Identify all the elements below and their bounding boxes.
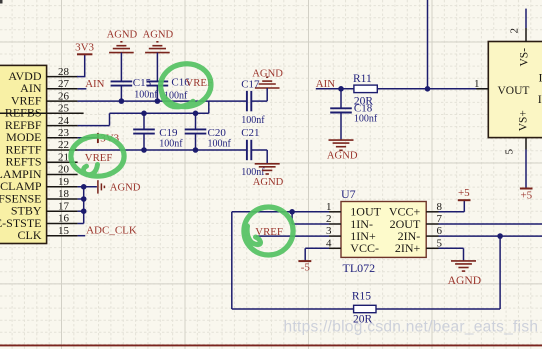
capacitor C20 100nf — [185, 113, 232, 150]
wire pin27 stub — [78, 88, 87, 90]
wire AGND to C16 — [156, 53, 158, 82]
pin 1 1OUT — [326, 201, 382, 219]
wire C16 to VREF rail — [156, 86, 158, 102]
net label VREF (U7 pin 3) — [255, 226, 283, 238]
svg-text:20: 20 — [58, 164, 70, 176]
power 3V3 (top-left bar) — [75, 42, 94, 55]
wire REFTF rail from pin 22 — [78, 149, 247, 151]
wire R11 to VOUT pin1 — [377, 88, 488, 90]
svg-text:21: 21 — [58, 152, 69, 164]
svg-text:4: 4 — [326, 237, 332, 249]
pin 21 REFTS — [5, 152, 77, 169]
svg-text:AGND: AGND — [107, 30, 138, 41]
svg-text:VREF: VREF — [85, 152, 113, 164]
svg-text:8: 8 — [437, 201, 443, 213]
svg-text:100nf: 100nf — [208, 138, 232, 149]
svg-text:1: 1 — [474, 78, 480, 90]
svg-text:AGND: AGND — [327, 150, 358, 161]
svg-text:2: 2 — [509, 28, 521, 34]
svg-text:100nf: 100nf — [241, 115, 265, 126]
pin 16 E-STSTE — [0, 213, 78, 230]
svg-text:7: 7 — [437, 213, 443, 225]
svg-text:2: 2 — [326, 213, 332, 225]
wire R15 to pin6 vertical — [376, 308, 500, 310]
pin 22 REFTF — [5, 139, 77, 156]
wire pin7 2OUT to right edge — [439, 223, 542, 225]
svg-text:+5: +5 — [520, 190, 532, 202]
capacitor C19 100nf — [133, 113, 183, 150]
pin 17 STBY — [11, 200, 78, 217]
ground AGND above C17 — [252, 68, 283, 88]
svg-text:IN-: IN- — [539, 71, 542, 85]
op-amp U7 TL072 — [341, 187, 426, 275]
pin 18 FSENSE — [0, 188, 78, 205]
svg-text:26: 26 — [58, 90, 70, 102]
junction C19 bottom — [141, 147, 147, 153]
wire pin5 to +5 — [525, 150, 527, 189]
pin 25 REFBS — [5, 103, 78, 120]
svg-text:VCC-: VCC- — [350, 241, 379, 255]
svg-text:U7: U7 — [341, 187, 356, 201]
strikethrough line through REFBS pin name (pin 25 wire) — [0, 112, 84, 114]
ground AGND below C21 — [253, 164, 284, 188]
pin 6 2IN- — [398, 225, 443, 243]
pin 19 CLAMP — [0, 176, 77, 193]
corner artifact top-left — [0, 0, 3, 4]
pin 15 CLK — [18, 225, 78, 242]
pin 8 VCC+ — [389, 201, 443, 219]
svg-text:AGND: AGND — [253, 177, 284, 188]
wire pin6 down to R15 — [499, 236, 501, 309]
power +5 (below VS+) — [520, 189, 533, 202]
junction C20 bottom — [193, 147, 199, 153]
wire pin23 MODE to 3V3 — [78, 137, 98, 139]
junction pin18 bus — [81, 196, 87, 202]
capacitor C21 100nf — [241, 127, 265, 178]
wire pin1 1OUT left — [232, 211, 329, 213]
annotation circle (C16/VREF) — [159, 61, 214, 109]
ground AGND (right-pointing, pin 19) — [98, 180, 141, 193]
svg-text:28: 28 — [58, 66, 70, 78]
watermark — [284, 318, 539, 335]
pin 26 VREF — [11, 90, 78, 107]
svg-text:ADC_CLK: ADC_CLK — [86, 225, 137, 237]
resistor R15 20R — [352, 291, 376, 326]
svg-text:17: 17 — [58, 200, 70, 212]
pin 20 LAMPIN — [0, 164, 78, 181]
wire pin5 2IN+ to AGND — [439, 248, 464, 260]
wire bus pins 19-16 — [78, 187, 84, 224]
pin 7 2OUT — [390, 213, 443, 231]
junction C15/VREF rail — [119, 98, 125, 104]
junction C16/VREF rail — [155, 98, 161, 104]
svg-text:R11: R11 — [353, 73, 372, 85]
ground AGND below C18 — [327, 140, 358, 161]
annotation circle (VREF U7) — [244, 207, 293, 255]
svg-text:C19: C19 — [159, 127, 178, 139]
svg-text:CLK: CLK — [18, 228, 42, 242]
junction pin17 bus — [81, 208, 87, 214]
svg-text:27: 27 — [58, 78, 70, 90]
ground AGND above C16 — [143, 30, 174, 53]
svg-text:VOUT: VOUT — [498, 85, 530, 97]
ground AGND below U7 pin5 — [448, 261, 482, 287]
svg-text:18: 18 — [58, 188, 70, 200]
capacitor C17 100nf — [241, 79, 265, 126]
svg-text:C21: C21 — [241, 127, 259, 139]
junction feedback — [289, 209, 295, 215]
resistor R11 20R — [353, 73, 377, 107]
power 3V3 (bar at MODE) — [98, 133, 120, 145]
pin 2 1IN- — [326, 213, 373, 231]
svg-text:VREF: VREF — [255, 226, 283, 238]
svg-text:3V3: 3V3 — [75, 42, 94, 54]
wire pin4 VCC- to -5 — [305, 248, 329, 261]
svg-text:C20: C20 — [208, 127, 227, 139]
svg-text:2IN+: 2IN+ — [395, 241, 421, 255]
svg-text:100nf: 100nf — [134, 90, 158, 101]
bottom maroon line — [0, 344, 542, 346]
wire pin19 to AGND — [78, 186, 97, 188]
net label VREF (floating, near C16) — [185, 77, 213, 89]
wire pin1 down-left loop to R15 — [232, 212, 354, 309]
net label AIN (at R11) — [316, 78, 335, 90]
net label AIN (pin 27) — [85, 78, 104, 90]
wire C17 to AGND — [251, 88, 267, 101]
svg-text:19: 19 — [58, 176, 70, 188]
junction C20 top — [193, 111, 199, 117]
IC U? ADC (left, partially cropped) — [0, 65, 47, 243]
svg-text:VS+: VS+ — [518, 110, 530, 131]
junction pin19 bus — [81, 184, 87, 190]
wire pin15 stub — [78, 235, 86, 237]
svg-text:AGND: AGND — [448, 274, 482, 287]
svg-text:https://blog.csdn.net/bear_eat: https://blog.csdn.net/bear_eats_fish — [284, 318, 539, 335]
svg-text:-5: -5 — [301, 262, 311, 274]
pin 4 VCC- — [326, 237, 379, 255]
pin 2 VS- — [509, 9, 527, 42]
svg-text:15: 15 — [58, 225, 70, 237]
junction pin6 feedback — [497, 233, 503, 239]
svg-text:22: 22 — [58, 139, 69, 151]
IC U? output amp (right, partially cropped) — [488, 42, 542, 138]
svg-text:3: 3 — [326, 225, 332, 237]
power +5 (at VCC+) — [458, 187, 471, 200]
pin 3 1IN+ — [326, 225, 376, 243]
wire feedback pin2 to pin1 — [292, 212, 329, 224]
svg-text:16: 16 — [58, 213, 70, 225]
svg-text:5: 5 — [504, 149, 516, 155]
pin 28 AVDD — [8, 66, 77, 83]
svg-text:C15: C15 — [133, 77, 152, 89]
wire pin28 to 3V3 — [77, 54, 85, 76]
svg-text:+5: +5 — [458, 187, 470, 199]
svg-text:VS-: VS- — [519, 48, 531, 67]
wire pin3 1IN+ stub — [256, 235, 329, 237]
svg-text:R15: R15 — [352, 291, 371, 303]
wire REFBF rail from pin 24 — [78, 113, 209, 125]
junction AIN/C18 — [338, 86, 344, 92]
wire vertical to top edge — [427, 0, 429, 89]
wire pin8 VCC+ to +5 — [439, 200, 465, 212]
svg-text:24: 24 — [58, 115, 70, 127]
svg-text:TL072: TL072 — [343, 261, 376, 275]
svg-text:6: 6 — [437, 225, 443, 237]
pin 23 MODE — [6, 127, 77, 144]
wire pin6 2IN- to right edge — [439, 235, 542, 237]
svg-text:AGND: AGND — [143, 30, 174, 41]
wire C15 to VREF rail — [120, 86, 122, 102]
svg-text:C17: C17 — [241, 79, 260, 91]
svg-text:100nf: 100nf — [354, 113, 378, 124]
svg-text:100nf: 100nf — [159, 138, 183, 149]
pin 24 REFBF — [5, 115, 78, 132]
pin 5 VS+ — [504, 138, 527, 155]
junction R11 wire / vertical — [425, 86, 431, 92]
svg-text:5: 5 — [437, 237, 443, 249]
pin 5 2IN+ — [395, 237, 443, 255]
ground AGND above C15 — [107, 30, 138, 53]
wire VREF rail from pin 26 — [78, 101, 247, 113]
annotation circle (VREF pin 21) — [71, 136, 124, 176]
capacitor C15 100nf — [111, 77, 159, 101]
capacitor C18 100nf — [330, 89, 378, 140]
capacitor C16 100nf — [147, 77, 191, 102]
svg-text:1: 1 — [326, 201, 332, 213]
svg-text:IN+: IN+ — [538, 92, 542, 106]
pin 1 VOUT — [474, 78, 488, 90]
power -5 (below VCC-) — [298, 261, 311, 273]
wire C21 to AGND — [251, 150, 267, 164]
wire AGND to C15 — [120, 53, 122, 82]
junction C19 top — [141, 111, 147, 117]
pin 27 AIN — [20, 78, 77, 95]
svg-text:23: 23 — [58, 127, 70, 139]
svg-text:AGND: AGND — [110, 183, 141, 194]
net label VREF (pin 21) — [85, 152, 113, 164]
net label ADC_CLK (pin 15) — [86, 225, 137, 237]
wire AIN to R11 — [316, 88, 354, 90]
svg-text:AIN: AIN — [85, 78, 104, 90]
